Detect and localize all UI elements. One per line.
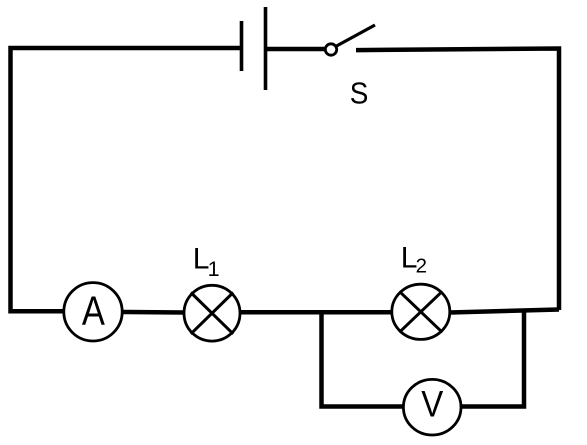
svg-text:V: V (421, 383, 443, 425)
svg-text:S: S (350, 76, 369, 111)
svg-text:1: 1 (208, 257, 220, 281)
svg-text:2: 2 (416, 255, 427, 278)
svg-text:A: A (82, 287, 105, 333)
